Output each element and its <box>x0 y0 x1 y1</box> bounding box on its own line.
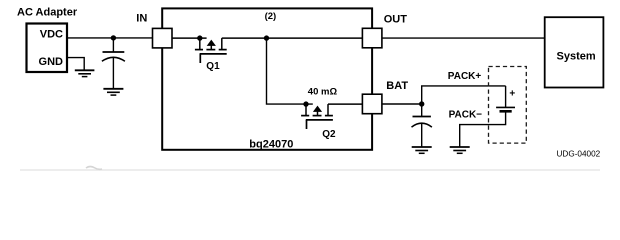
svg-text:OUT: OUT <box>384 14 408 26</box>
ground (battery capacitor) <box>412 147 432 153</box>
svg-text:BAT: BAT <box>386 80 408 92</box>
label (2) <box>265 11 277 22</box>
pin label GND <box>39 56 64 68</box>
ground (input capacitor) <box>103 89 123 95</box>
faint cropped caption remnant <box>20 167 600 171</box>
label PACK+ <box>448 71 482 82</box>
label PACK- <box>449 110 483 121</box>
svg-text:PACK+: PACK+ <box>448 71 482 82</box>
svg-text:IN: IN <box>136 13 147 25</box>
svg-text:System: System <box>557 51 596 63</box>
svg-text:40 mΩ: 40 mΩ <box>308 86 338 97</box>
pad OUT <box>362 28 382 48</box>
wire junction down to Q2 source <box>267 38 313 104</box>
junction node BAT net <box>419 101 424 106</box>
wire PACK+ (junction up and right to battery) <box>422 86 506 104</box>
svg-text:VDC: VDC <box>40 29 63 41</box>
label IN <box>136 13 147 25</box>
svg-text:UDG-04002: UDG-04002 <box>557 150 601 159</box>
pad IN <box>153 28 173 48</box>
pad BAT <box>362 94 382 114</box>
wire IN pad to Q1 source <box>172 37 207 39</box>
label OUT <box>384 14 408 26</box>
wire BAT pad to junction <box>382 103 422 105</box>
battery plus sign <box>509 89 515 100</box>
block AC Adapter box <box>27 24 68 73</box>
transistor Q2 (PMOS with body diode) <box>301 104 333 129</box>
transistor Q1 (PMOS with body diode) <box>195 38 227 63</box>
battery B1 cell <box>496 86 515 111</box>
wire Q1 drain to OUT pad <box>222 37 363 39</box>
label UDG-04002 <box>557 150 601 159</box>
label bq24070 <box>249 138 293 150</box>
ground (PACK-) <box>450 147 470 153</box>
label "AC Adapter" <box>17 7 78 19</box>
label 40 mOhm <box>308 86 338 97</box>
svg-text:+: + <box>509 89 515 100</box>
wire Q2 drain to BAT pad <box>328 103 362 105</box>
wire GND pin to ground <box>67 58 84 71</box>
label BAT <box>386 80 408 92</box>
wire OUT pad to System <box>382 37 545 39</box>
svg-text:AC Adapter: AC Adapter <box>17 7 78 19</box>
junction node on VDC wire <box>111 35 116 40</box>
battery pack dashed outline <box>489 67 527 144</box>
label Q1 <box>206 61 220 72</box>
svg-text:(2): (2) <box>265 11 277 22</box>
svg-text:bq24070: bq24070 <box>249 138 293 150</box>
IC U1 bq24070 outline box <box>162 8 372 149</box>
svg-text:Q2: Q2 <box>322 129 336 140</box>
block System box <box>545 17 604 87</box>
label System <box>557 51 596 63</box>
svg-text:Q1: Q1 <box>206 61 220 72</box>
label Q2 <box>322 129 336 140</box>
svg-text:PACK−: PACK− <box>449 110 483 121</box>
pin label VDC <box>40 29 63 41</box>
capacitor C1 (input) <box>102 38 125 89</box>
junction node at Q1 source <box>197 35 202 40</box>
capacitor C2 (battery) <box>412 104 432 147</box>
wire PACK- (battery bottom left and down to ground) <box>460 112 506 146</box>
wire VDC to IN pad <box>67 37 153 39</box>
svg-text:GND: GND <box>39 56 64 68</box>
junction node on OUT rail <box>264 35 269 40</box>
junction node at Q2 source <box>303 101 308 106</box>
ground (AC adapter GND) <box>75 70 95 76</box>
